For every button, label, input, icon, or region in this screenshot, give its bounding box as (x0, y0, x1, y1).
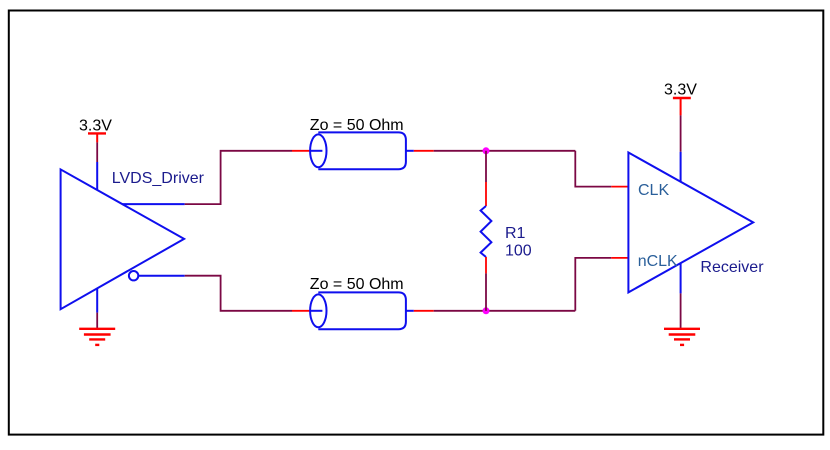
wire (driver out- to T2) (185, 276, 292, 311)
svg-text:nCLK: nCLK (638, 253, 678, 270)
ground symbol (driver) (79, 329, 115, 345)
pin (R1 bottom, red) (485, 257, 487, 273)
svg-text:Receiver: Receiver (700, 259, 764, 276)
svg-text:CLK: CLK (638, 182, 669, 199)
power symbol 3.3V (driver) (79, 117, 112, 142)
pin (receiver power, into top edge) (680, 152, 682, 182)
pin (R1 top, red) (485, 182, 487, 206)
power symbol 3.3V (receiver) (664, 81, 697, 115)
svg-text:3.3V: 3.3V (664, 81, 697, 98)
pin (T2 right, red stub) (414, 310, 434, 312)
pin (driver power, into top edge) (96, 162, 98, 190)
wire (top junction to R1) (485, 151, 487, 182)
svg-text:100: 100 (505, 243, 532, 260)
svg-text:3.3V: 3.3V (79, 117, 112, 134)
pin (receiver ground, from bottom edge) (680, 263, 682, 293)
pin (receiver nCLK, red stub) (611, 257, 628, 259)
wire (driver out+ to T1) (185, 151, 292, 204)
junction node (top of R1) (483, 147, 490, 154)
ground symbol (receiver) (664, 329, 700, 345)
transmission line T1 body (310, 132, 414, 169)
wire (receiver ground) (680, 293, 682, 328)
transmission line T2 body (310, 292, 414, 329)
pin (receiver CLK, red stub) (611, 186, 628, 188)
op-amp U1 LVDS_Driver triangle body (61, 169, 185, 309)
wire (3.3V to receiver power pin) (680, 115, 682, 151)
wire (R1 to bottom junction) (485, 273, 487, 310)
wire (net to CLK pin) (575, 151, 611, 187)
wire (T2 to receiver net nCLK) (434, 310, 576, 312)
op-amp U2 Receiver triangle body (628, 153, 753, 293)
pin (driver inverting output) (138, 275, 184, 277)
svg-text:LVDS_Driver: LVDS_Driver (112, 170, 205, 187)
svg-text:R1: R1 (505, 225, 526, 242)
wire (T1 to receiver net CLK) (434, 150, 576, 152)
pin (T1 right, red stub) (414, 150, 434, 152)
wire (driver ground) (96, 313, 98, 329)
pin (driver inverting output bubble) (129, 271, 138, 280)
pin (driver ground, from bottom edge) (96, 288, 98, 312)
pin (T2 left, red stub) (292, 310, 310, 312)
wire (net to nCLK pin) (575, 258, 611, 311)
pin (T1 left, red stub) (292, 150, 310, 152)
junction node (bottom of R1) (483, 307, 490, 314)
wire (3.3V to driver power pin) (96, 142, 98, 162)
resistor R1 zigzag (481, 206, 492, 257)
pin (driver non-inverting output) (122, 203, 184, 205)
svg-text:Zo = 50 Ohm: Zo = 50 Ohm (310, 276, 404, 293)
